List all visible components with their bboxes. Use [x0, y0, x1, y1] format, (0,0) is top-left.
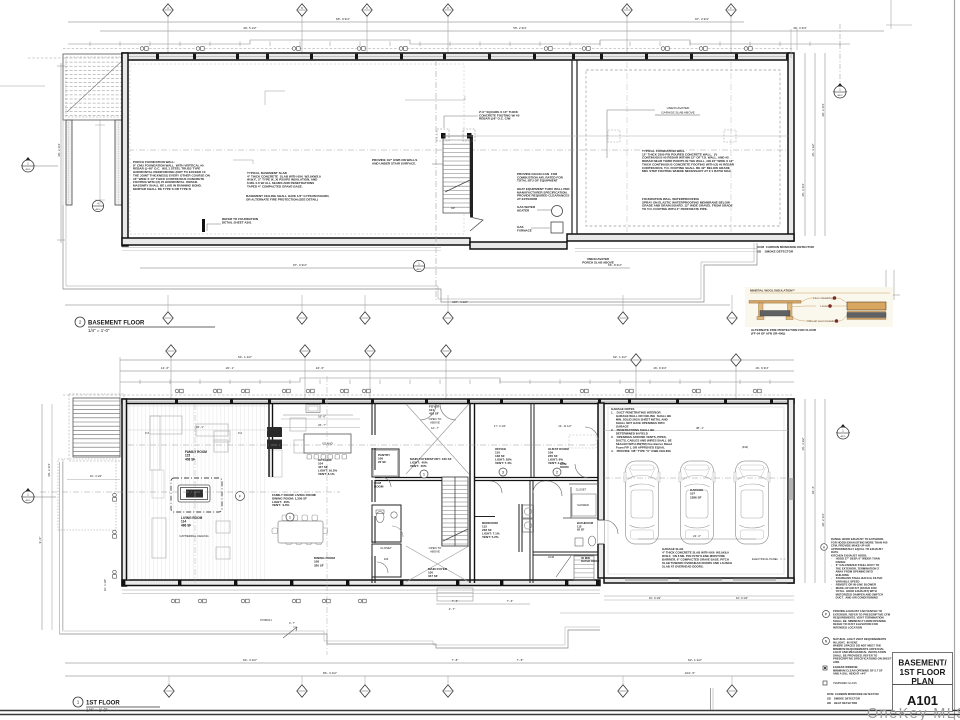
basement foundation right wall	[788, 53, 794, 241]
porch marker circle basement left	[92, 200, 103, 211]
svg-text:9'-6: 9'-6	[145, 432, 150, 435]
svg-text:F: F	[239, 495, 241, 499]
basement porch foundation strip left	[63, 120, 122, 205]
first floor - top dimension line 2	[120, 370, 794, 372]
hall wall horizontal	[375, 477, 598, 546]
stair footing squares with posts	[437, 129, 475, 141]
left porch dimension	[67, 474, 120, 591]
svg-text:A301: A301	[25, 499, 31, 502]
kitchen sink and counter	[283, 405, 353, 416]
fireplace feature	[171, 478, 222, 512]
marker - range hood note	[821, 544, 828, 551]
foyer open-to-above X lower	[406, 546, 469, 582]
svg-text:104'- 6": 104'- 6"	[685, 671, 696, 675]
washer dryer stack	[523, 505, 534, 532]
basement foundation left wall	[122, 53, 128, 246]
first floor porch stair hatch top-left	[69, 394, 124, 461]
basement gas furnace	[517, 222, 563, 233]
svg-text:1ST FLOOR: 1ST FLOOR	[900, 668, 946, 677]
basement foundation bottom wall - middle section	[470, 242, 567, 249]
marker circle below bottom wall	[413, 260, 424, 271]
family room floor boards	[130, 405, 264, 580]
svg-text:30'- 2 1/4": 30'- 2 1/4"	[47, 463, 51, 476]
main stair first floor	[442, 477, 468, 546]
svg-text:12'- 11 1/2": 12'- 11 1/2"	[558, 424, 572, 428]
floor detail - labels and markers	[790, 296, 847, 323]
svg-text:36'- 3 1/4": 36'- 3 1/4"	[801, 183, 805, 196]
basement interior corner brackets	[233, 91, 465, 164]
svg-text:7'- 6": 7'- 6"	[452, 599, 459, 603]
svg-text:30'- 2 1/4": 30'- 2 1/4"	[821, 513, 825, 526]
first floor porch dotted strip left	[52, 404, 116, 630]
garage entry steps	[556, 556, 594, 580]
notes - provide exhaust fan	[823, 611, 830, 618]
basement section marker right	[833, 24, 847, 98]
svg-text:16'- 9 1/2": 16'- 9 1/2"	[649, 596, 661, 600]
unexcavated area dashed offset rectangle	[586, 70, 780, 226]
basement bottom dimension line 2	[65, 304, 730, 306]
garage centerline dashed	[604, 477, 788, 479]
svg-text:TEMPERED GLASS: TEMPERED GLASS	[833, 681, 857, 685]
garage interior offset line	[608, 407, 784, 574]
svg-text:C: C	[366, 7, 368, 10]
basement foundation bottom wall - left section	[122, 238, 470, 245]
svg-text:97'- 0 3/4": 97'- 0 3/4"	[293, 263, 307, 267]
first floor - deck overhang dashed line	[63, 394, 794, 396]
house interior drywall offset lines	[128, 406, 268, 580]
svg-text:66'- 8 3/4": 66'- 8 3/4"	[608, 263, 622, 267]
svg-text:1: 1	[289, 515, 291, 520]
svg-text:84'- 3 1/2": 84'- 3 1/2"	[323, 671, 337, 675]
svg-text:26'- 1": 26'- 1"	[196, 425, 204, 429]
guest room closet dashed	[569, 435, 596, 448]
basement grid dashed verticals in unexcavated area	[626, 62, 628, 232]
svg-text:PROVIDE FAN-IN-CAN FORCOMBUST: PROVIDE FAN-IN-CAN FORCOMBUSTION AIR, RA…	[517, 172, 564, 183]
notes - tempered glass legend	[823, 681, 827, 685]
basement left dimension lines	[57, 63, 65, 243]
svg-text:1/4" = 1'-0": 1/4" = 1'-0"	[88, 328, 110, 333]
bedroom area interior walls	[475, 481, 598, 583]
svg-text:16'- 6": 16'- 6"	[316, 366, 324, 370]
svg-text:D: D	[447, 7, 449, 10]
vertical separator near title block	[711, 688, 714, 710]
office guest separation wall	[531, 403, 534, 477]
basement foundation top wall	[122, 53, 790, 60]
first floor right dimensions	[801, 399, 825, 583]
family room vertical centerline	[194, 404, 196, 583]
svg-text:10'- 4 1/2": 10'- 4 1/2"	[103, 579, 107, 591]
svg-text:65'- 9 3/4": 65'- 9 3/4"	[336, 17, 350, 21]
basement foundation bottom wall - right section	[567, 234, 794, 241]
first floor tags below bottom wall	[171, 599, 366, 603]
svg-text:17'- 0 1/2": 17'- 0 1/2"	[494, 424, 506, 428]
foyer east wall	[470, 403, 475, 583]
kitchen west wall with appliance column	[267, 403, 282, 477]
basement top wall posts	[122, 54, 789, 59]
porch small dimensions	[436, 599, 530, 611]
svg-text:16'- 4 1/2": 16'- 4 1/2"	[801, 437, 805, 450]
svg-text:54'- 1 1/2": 54'- 1 1/2"	[238, 355, 252, 359]
svg-text:7'- 6": 7'- 6"	[507, 599, 514, 603]
first floor window tags above wall	[175, 389, 761, 393]
basement stair door swing	[470, 217, 483, 231]
svg-text:36'- 3 3/4": 36'- 3 3/4"	[793, 26, 806, 30]
svg-text:30'- 2 1/4": 30'- 2 1/4"	[821, 103, 825, 116]
floor detail - slab section right	[847, 302, 886, 320]
kitchen dimension lines	[196, 415, 360, 430]
svg-text:16'- 9 3/4": 16'- 9 3/4"	[653, 366, 666, 370]
svg-text:62'- 1 1/2": 62'- 1 1/2"	[688, 658, 702, 662]
basement outer porch boundary	[63, 205, 757, 302]
svg-text:38'- 1": 38'- 1"	[696, 426, 704, 430]
svg-text:36'- 6": 36'- 6"	[811, 486, 815, 494]
svg-text:12'- 7": 12'- 7"	[431, 426, 439, 430]
first floor - top dimension line 1	[120, 359, 794, 361]
svg-text:9'- 0": 9'- 0"	[38, 537, 42, 544]
basement gas water heater	[517, 205, 563, 217]
middle column dim texts	[494, 424, 572, 428]
svg-text:3: 3	[502, 470, 504, 475]
svg-text:26'- 7": 26'- 7"	[318, 423, 326, 427]
first floor exterior bottom wall	[122, 580, 600, 586]
basement interior dashed offset - main area	[130, 64, 464, 234]
title block	[893, 653, 953, 712]
svg-text:4'- 7": 4'- 7"	[449, 607, 456, 611]
closet room walls	[372, 544, 401, 577]
svg-text:A301: A301	[840, 435, 846, 438]
front entry steps below foyer	[437, 588, 473, 601]
basement centerline horizontal	[128, 149, 788, 151]
svg-text:ABOVE: ABOVE	[430, 421, 440, 425]
svg-text:UNEXCAVATED: UNEXCAVATED	[667, 106, 690, 110]
deck dashed edge left of stair box	[28, 57, 66, 59]
garage walls	[598, 399, 794, 583]
basement bottom grid diamonds	[167, 295, 169, 311]
first floor exterior left wall	[122, 399, 127, 586]
pantry room walls	[372, 449, 399, 477]
first floor section marker right	[836, 424, 850, 439]
first floor left section marker	[21, 488, 56, 503]
kitchen counter column	[270, 450, 282, 477]
family room centerline dash-dot	[128, 444, 595, 446]
fireplace centerline with marker	[40, 492, 340, 501]
top right margin dimension hooks	[791, 0, 912, 58]
svg-text:14'- 6": 14'- 6"	[161, 366, 169, 370]
first floor bottom wall posts	[122, 581, 599, 586]
first floor title label	[73, 697, 160, 713]
svg-text:A301: A301	[95, 208, 101, 211]
svg-text:A301: A301	[416, 268, 422, 271]
left margin tick line	[0, 85, 45, 87]
basement slab edge lines below bottom wall	[122, 248, 757, 252]
svg-text:GARAGE SLAB ABOVE: GARAGE SLAB ABOVE	[661, 111, 695, 115]
first floor bottom dimension line 2	[65, 675, 794, 677]
svg-text:I-Joist: I-Joist	[820, 304, 828, 308]
svg-text:107'- 4 1/2": 107'- 4 1/2"	[452, 300, 468, 304]
basement stair	[443, 135, 473, 217]
svg-text:7'- 8": 7'- 8"	[452, 658, 459, 662]
svg-text:64'- 3 1/2": 64'- 3 1/2"	[243, 658, 257, 662]
svg-text:Mineral wool insulation: Mineral wool insulation	[808, 319, 837, 323]
basement plan - deck overhang dashed line	[63, 48, 794, 50]
svg-text:ELECTRICAL PANEL: ELECTRICAL PANEL	[752, 557, 779, 561]
svg-text:MINERAL WOOL INSULATION**: MINERAL WOOL INSULATION**	[750, 289, 796, 293]
foyer open-to-above X upper	[406, 404, 469, 474]
svg-text:CLOSET: CLOSET	[576, 488, 587, 492]
kitchen island with stools	[304, 434, 351, 459]
first floor top wall posts	[122, 399, 793, 403]
wall at pantry column	[372, 403, 375, 583]
svg-text:CLOSET: CLOSET	[380, 546, 392, 550]
svg-text:Floor sheathing: Floor sheathing	[813, 296, 833, 300]
garage apron dimension texts	[649, 596, 748, 600]
svg-text:10'- 4 1/2": 10'- 4 1/2"	[90, 474, 102, 478]
svg-text:BASEMENT FLOOR: BASEMENT FLOOR	[88, 321, 145, 327]
svg-text:BASEMENT/: BASEMENT/	[898, 659, 947, 668]
svg-text:97'- 3 3/4": 97'- 3 3/4"	[695, 17, 709, 21]
svg-text:49'- 5 1/2": 49'- 5 1/2"	[243, 26, 256, 30]
dining table with chairs	[272, 515, 328, 545]
svg-text:ABOVE: ABOVE	[430, 550, 440, 554]
living room furniture	[152, 431, 230, 559]
powder room walls	[372, 505, 401, 542]
basement porch stair hatch top-left	[63, 54, 125, 120]
family room sectional sofa	[145, 416, 310, 470]
svg-text:16'- 9 3/4": 16'- 9 3/4"	[755, 366, 768, 370]
garage width dimension line	[604, 426, 788, 431]
basement plan - grid bubble diamonds top row	[163, 4, 173, 16]
svg-text:106: 106	[384, 557, 389, 561]
svg-text:OneKey MLS: OneKey MLS	[867, 706, 960, 720]
garage cars	[624, 461, 770, 544]
basement plan - top dimension line 3	[68, 40, 850, 44]
garage parking dimension	[638, 534, 756, 539]
floor assembly detail panel	[745, 287, 893, 327]
first floor bottom dimension line 1	[65, 662, 794, 664]
svg-text:30'- 2 1/4": 30'- 2 1/4"	[57, 143, 61, 156]
powder room fixtures	[376, 510, 403, 537]
basement beam line with footings	[443, 130, 788, 142]
basement window tags above top wall	[140, 47, 752, 51]
basement plan - grid extension lines	[167, 16, 169, 53]
svg-text:UP: UP	[451, 206, 455, 210]
svg-text:22'- 0": 22'- 0"	[693, 534, 701, 538]
svg-text:2: 2	[556, 470, 558, 475]
sheet right border	[954, 0, 956, 720]
first floor bottom grid diamonds	[168, 676, 170, 684]
basement porch inner dimension line	[95, 120, 105, 205]
svg-text:16'- 4 1/2": 16'- 4 1/2"	[811, 143, 815, 156]
basement plan - top dimension line 1	[68, 21, 744, 23]
porch ramp arrow	[283, 621, 297, 638]
svg-text:OCM: OCM	[548, 555, 554, 559]
garage side door opening	[598, 520, 605, 544]
svg-text:4'- 7": 4'- 7"	[289, 621, 295, 625]
first floor - top dimension line 3	[120, 378, 794, 382]
svg-text:9'-6: 9'-6	[238, 432, 243, 435]
first floor exterior top wall	[122, 399, 794, 404]
svg-text:A301: A301	[837, 94, 843, 97]
family room beam line	[128, 429, 268, 431]
door swing arcs	[377, 404, 618, 573]
note - unexcavated garage slab above	[607, 106, 700, 158]
basement bottom dimension line 1	[140, 267, 630, 269]
basement interior foundation wall at garage line	[572, 60, 577, 234]
first floor left dimensions	[38, 404, 51, 630]
svg-text:PORCH FOUNDATION WALL:8" CMU F: PORCH FOUNDATION WALL:8" CMU FOUNDATION …	[133, 160, 210, 191]
basement left section marker	[21, 157, 58, 172]
svg-text:20'- 1": 20'- 1"	[226, 366, 234, 370]
svg-text:16'- 9 1/2": 16'- 9 1/2"	[736, 596, 748, 600]
svg-text:1ST FLOOR: 1ST FLOOR	[86, 701, 120, 707]
svg-text:BASEMENT CEILING SHALL HAVE 1/: BASEMENT CEILING SHALL HAVE 1/2" GYPSUM …	[246, 194, 330, 201]
floor detail - joist section left	[749, 301, 801, 320]
basement centerline vertical at grid D	[435, 60, 437, 300]
left wall window tags vertical	[113, 493, 117, 578]
svg-text:55'- 2 3/4": 55'- 2 3/4"	[513, 26, 526, 30]
svg-text:SHOWER: SHOWER	[577, 503, 589, 507]
first floor - grid extension lines top	[119, 357, 121, 399]
svg-text:CATHEDRAL CEILING: CATHEDRAL CEILING	[179, 534, 209, 538]
basement plan - top dimension line 2	[100, 30, 884, 32]
sheet bottom border	[0, 711, 960, 715]
first floor - top grid diamonds	[166, 345, 176, 357]
svg-text:A301: A301	[25, 168, 31, 171]
svg-text:(342): (342)	[742, 445, 748, 449]
svg-text:PLAN: PLAN	[911, 677, 933, 686]
svg-text:1: 1	[423, 472, 425, 477]
first floor porch deck lines	[60, 462, 795, 648]
svg-text:PORCH: PORCH	[260, 618, 271, 622]
notes - egress window legend	[823, 666, 827, 670]
garage door openings	[625, 579, 776, 582]
notes - natural light requirement	[823, 638, 830, 645]
bath2 fixtures	[547, 464, 596, 546]
basement right dimension lines	[801, 53, 825, 236]
svg-text:7'- 8": 7'- 8"	[517, 658, 524, 662]
basement floor title label	[75, 317, 215, 333]
svg-text:62'- 1 1/2": 62'- 1 1/2"	[613, 355, 627, 359]
svg-text:PROVIDE 1/2" GWB ON WALLSAND U: PROVIDE 1/2" GWB ON WALLSAND UNDER STAIR…	[372, 158, 417, 165]
kitchen-dining grid dash line	[326, 376, 328, 655]
